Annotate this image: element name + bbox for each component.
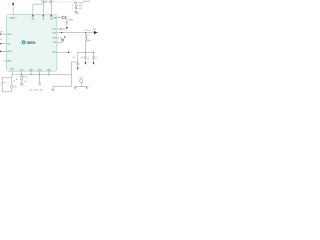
svg-text:XTB: XTB — [53, 42, 56, 44]
svg-text:R1 10k: R1 10k — [23, 77, 28, 79]
svg-text:Vb: Vb — [4, 82, 6, 84]
svg-text:Vdd_1v8: Vdd_1v8 — [41, 1, 47, 3]
svg-text:DIO2: DIO2 — [52, 32, 56, 34]
svg-text:BUSY: BUSY — [63, 29, 67, 31]
svg-text:NRST: NRST — [7, 34, 11, 36]
svg-text:= 4.7k: = 4.7k — [78, 5, 82, 7]
svg-text:Cb: Cb — [13, 80, 15, 82]
svg-text:C2: C2 — [87, 57, 89, 59]
svg-text:Cp1: Cp1 — [72, 57, 75, 59]
svg-text:Vdd=3.3V: Vdd=3.3V — [83, 1, 90, 3]
svg-text:C3: C3 — [95, 57, 97, 59]
svg-text:Tsw = 100 us typ.: Tsw = 100 us typ. — [29, 89, 43, 92]
svg-text:L1 15nH: L1 15nH — [84, 30, 90, 32]
svg-text:32MHz: 32MHz — [69, 20, 74, 22]
svg-text:MOSI: MOSI — [7, 51, 12, 53]
svg-text:Vdd_io: Vdd_io — [49, 1, 54, 3]
svg-text:Cp2: Cp2 — [81, 57, 84, 59]
svg-text:DIO1: DIO1 — [52, 29, 56, 31]
svg-text:33nH: 33nH — [87, 40, 91, 42]
svg-text:Rs: Rs — [16, 79, 18, 81]
svg-text:3.3V: 3.3V — [14, 87, 17, 89]
svg-text:DIO3: DIO3 — [52, 38, 56, 40]
svg-text:= 1uF: = 1uF — [78, 8, 82, 10]
svg-text:SEMTECH: SEMTECH — [27, 41, 36, 45]
svg-text:L2: L2 — [87, 35, 89, 37]
svg-text:10k: 10k — [23, 81, 26, 83]
